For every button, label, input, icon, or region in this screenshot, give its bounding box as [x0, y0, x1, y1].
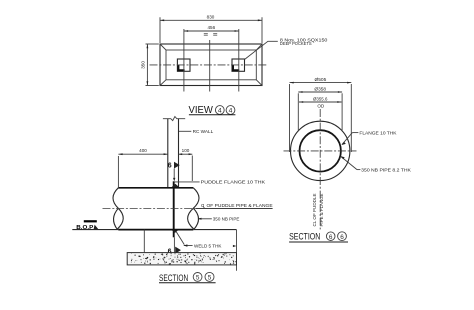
chamfer corner diagonals — [160, 44, 262, 86]
wall break line at top — [163, 117, 185, 121]
svg-text:5: 5 — [196, 275, 200, 282]
pipe left break — [113, 188, 123, 229]
concrete slab — [127, 253, 236, 265]
svg-text:830: 830 — [207, 14, 215, 19]
pipe bottom and B.O.P line — [72, 229, 236, 231]
svg-text:100: 100 — [182, 148, 190, 153]
svg-text:RC WALL: RC WALL — [193, 129, 214, 134]
pipe top line — [118, 187, 193, 189]
leader WELD 5 THK — [176, 231, 222, 248]
leader 350 NB PIPE 8.2 THK — [340, 156, 411, 172]
dimension 830 — [160, 14, 262, 43]
plan vertical line through left pocket — [183, 29, 185, 92]
weld fillet at pipe bottom — [171, 230, 179, 233]
puddle flange plate — [173, 181, 175, 237]
dimension dia 358 — [298, 87, 342, 132]
label VIEW 4-4 — [189, 105, 236, 116]
plan inner rectangle — [166, 50, 256, 80]
leader PUDDLE FLANGE 10 THK — [174, 179, 265, 184]
plan outer rectangle — [160, 44, 262, 86]
dimension dia 355.6 OD — [299, 96, 342, 108]
pipe centreline section 5 — [103, 208, 273, 210]
plan vertical line through right pocket — [238, 29, 240, 92]
svg-text:Ø355.6: Ø355.6 — [313, 96, 328, 101]
plan vertical centre line — [209, 40, 211, 92]
RC wall right face — [178, 119, 180, 188]
vertical label CL OF PUDDLE — [312, 193, 317, 226]
leader 350 NB PIPE — [197, 216, 239, 221]
svg-text:Ø505: Ø505 — [315, 77, 327, 82]
svg-text:CL OF PUDDLE: CL OF PUDDLE — [312, 193, 317, 226]
plan horizontal centreline — [150, 64, 267, 66]
weld symbol 6 lower — [168, 247, 181, 256]
svg-text:350: 350 — [141, 61, 146, 69]
svg-text:SECTION: SECTION — [289, 231, 320, 242]
svg-text:OD: OD — [317, 103, 325, 108]
slab edge line right with arrow — [233, 230, 237, 271]
flange outer circle — [291, 121, 350, 180]
vertical label PIPE & FLANGE — [319, 193, 324, 226]
dimension 350 — [141, 44, 159, 86]
svg-text:350 NB PIPE: 350 NB PIPE — [213, 216, 240, 221]
label SECTION 6-6 — [289, 231, 348, 242]
svg-text:4: 4 — [229, 107, 233, 114]
svg-text:WELD 5 THK: WELD 5 THK — [194, 243, 222, 248]
dimension 456 — [184, 25, 239, 35]
svg-text:400: 400 — [139, 148, 147, 153]
dimension 100 — [179, 148, 193, 181]
svg-text:6: 6 — [168, 163, 172, 170]
support line below pipe left — [143, 230, 145, 253]
svg-text:350 NB PIPE 8.2 THK: 350 NB PIPE 8.2 THK — [361, 167, 411, 172]
label CL OF PUDDLE PIPE & FLANGE — [201, 203, 273, 208]
pocket left square — [177, 59, 190, 71]
weld symbol 6 upper — [168, 162, 180, 182]
svg-text:SECTION: SECTION — [159, 272, 188, 283]
svg-text:6: 6 — [340, 234, 344, 241]
weld fillet at pipe top — [171, 184, 180, 188]
svg-text:456: 456 — [207, 25, 215, 30]
dimension 400 — [118, 148, 167, 187]
label RC WALL — [179, 129, 214, 134]
svg-text:B.O.P: B.O.P — [76, 225, 93, 231]
svg-text:DEEP POCKETS: DEEP POCKETS — [280, 41, 312, 46]
svg-text:FLANGE 10 THK: FLANGE 10 THK — [359, 130, 396, 135]
pocket right square — [232, 59, 245, 71]
svg-text:Ø358: Ø358 — [314, 87, 326, 92]
dimension dia 505 — [290, 77, 352, 152]
pocket leader and note — [245, 37, 328, 59]
horizontal centreline — [284, 150, 357, 152]
flange line extension to slab — [173, 237, 175, 252]
label SECTION 5-5 — [159, 272, 216, 283]
svg-text:PIPE & FLANGE: PIPE & FLANGE — [319, 193, 324, 226]
vertical centreline — [319, 109, 321, 229]
svg-text:4: 4 — [218, 107, 222, 114]
pipe circle — [300, 130, 341, 171]
B.O.P marker — [76, 220, 98, 231]
svg-text:PUDDLE FLANGE 10 THK: PUDDLE FLANGE 10 THK — [201, 179, 265, 184]
RC wall left face — [167, 119, 169, 188]
svg-text:OF PUDDLE PIPE & FLANGE: OF PUDDLE PIPE & FLANGE — [207, 203, 273, 208]
leader FLANGE 10 THK — [342, 130, 397, 145]
pipe right break — [188, 188, 199, 229]
svg-text:6: 6 — [329, 234, 333, 241]
svg-text:5: 5 — [208, 275, 212, 282]
